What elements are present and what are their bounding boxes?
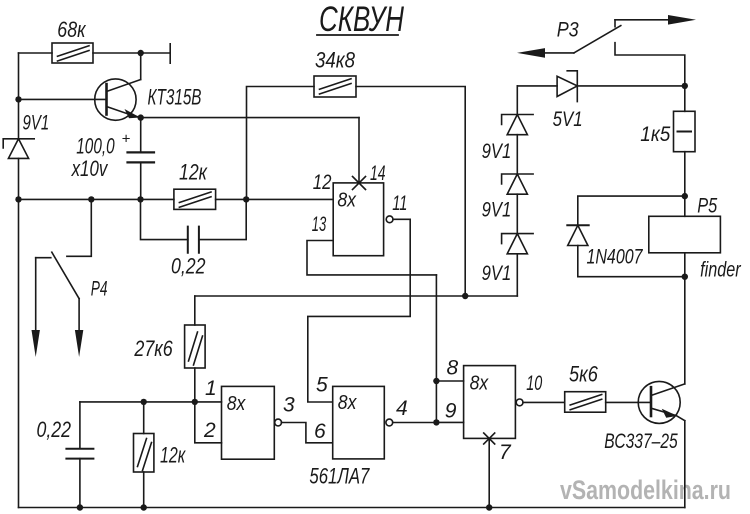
wire 1к5 to relay: [684, 152, 686, 217]
capacitor C2 0,22 top: [141, 199, 247, 252]
svg-text:P4: P4: [91, 278, 108, 301]
wire pin 9: [436, 421, 463, 423]
node P4 junction: [88, 196, 94, 202]
node cap bottom: [77, 504, 83, 510]
wire emitter rail down: [684, 421, 686, 508]
wire collector rail up: [684, 277, 686, 384]
bubble pin 4: [386, 419, 393, 426]
node 1N4007 bottom junction: [682, 274, 688, 280]
switch P3: [517, 15, 696, 111]
svg-text:1: 1: [205, 377, 217, 400]
node pin 8: [433, 378, 439, 384]
svg-text:10: 10: [526, 372, 542, 395]
node left mid junction: [15, 196, 21, 202]
node 12k bottom: [141, 504, 147, 510]
svg-text:9V1: 9V1: [482, 199, 512, 222]
svg-text:КТ315В: КТ315В: [148, 85, 202, 110]
wire pin 8: [436, 380, 463, 382]
diode VD6 1N4007: [567, 225, 685, 276]
transistor Q2 ВС337-25: [638, 381, 685, 423]
svg-text:8х: 8х: [470, 373, 489, 395]
gate U1a box: [222, 386, 275, 459]
svg-text:27к6: 27к6: [134, 336, 174, 361]
svg-text:13: 13: [312, 213, 327, 236]
gate U1d box: [333, 183, 383, 256]
svg-text:5к6: 5к6: [569, 362, 598, 387]
wire pin 13 loop: [307, 241, 436, 275]
node pin 9: [433, 419, 439, 425]
svg-text:1к5: 1к5: [640, 123, 670, 146]
svg-text:9V1: 9V1: [482, 140, 512, 163]
node 1N4007 top junction: [682, 193, 688, 199]
resistor R4 27к6: [185, 296, 206, 402]
wire pin 14 vertical: [358, 118, 360, 183]
zener VD1 9V1 left: [3, 139, 34, 159]
node pin12 junction: [243, 196, 249, 202]
capacitor C3 0,22 bottom: [66, 402, 93, 508]
svg-text:9V1: 9V1: [23, 112, 50, 135]
wire top rail right of 68к: [93, 52, 170, 54]
wire left rail upper: [18, 53, 20, 139]
gate U1c box: [464, 366, 516, 439]
svg-text:x10v: x10v: [71, 156, 109, 181]
switch P4: [32, 199, 92, 357]
svg-text:100,0: 100,0: [76, 134, 115, 159]
svg-text:11: 11: [392, 192, 407, 215]
node 12k bottom top junction: [141, 399, 147, 405]
zener VD5 9V1: [502, 234, 533, 296]
wire long horizontal 296: [195, 295, 518, 297]
wire 1N4007 top branch: [578, 196, 685, 225]
svg-text:3: 3: [283, 393, 295, 416]
resistor R5 12к bottom: [134, 402, 154, 508]
wire pin8-9 vertical: [435, 275, 437, 423]
diode VD2 5V1: [517, 71, 685, 102]
wire pin 2 jog: [195, 402, 222, 443]
wire zener chain top: [516, 86, 518, 115]
pin 7 cross: [484, 433, 495, 444]
pin 14 cross: [353, 177, 366, 190]
svg-text:14: 14: [370, 162, 386, 185]
svg-text:9V1: 9V1: [482, 262, 512, 285]
wire pin 10 to 5к6: [523, 401, 565, 403]
wire mid horizontal left: [19, 198, 174, 200]
zener VD4 9V1: [502, 174, 533, 234]
resistor 68к: [52, 43, 93, 63]
svg-text:561ЛА7: 561ЛА7: [309, 464, 370, 489]
node 34k8 bottom junction: [462, 293, 468, 299]
resistor R2 12к top: [174, 189, 216, 209]
wire pin 7 down: [488, 438, 490, 507]
svg-text:2: 2: [203, 419, 216, 442]
transistor Q1 КТ315В: [95, 79, 141, 120]
svg-text:+: +: [122, 131, 131, 148]
svg-text:12к: 12к: [179, 160, 208, 185]
wire bottom horizontal 402: [80, 401, 222, 403]
node pin7 bottom: [486, 504, 492, 510]
wire emitter to pin14: [141, 117, 359, 119]
wire 34к8 right branch: [356, 87, 465, 297]
node collector top junction: [138, 50, 144, 56]
zener VD3 9V1: [502, 115, 533, 175]
wire pin 3 to pin 6: [281, 423, 332, 443]
svg-text:7: 7: [499, 441, 512, 464]
wire bottom rail: [19, 507, 685, 509]
svg-text:1N4007: 1N4007: [587, 246, 644, 269]
wire pin 4 to pin 9: [393, 422, 437, 424]
gate U1b box: [333, 386, 385, 459]
svg-text:vSamodelkina.ru: vSamodelkina.ru: [560, 475, 731, 505]
resistor R6 5к6: [565, 392, 606, 413]
node 5V1 right junction: [682, 83, 688, 89]
node base junction: [15, 96, 21, 102]
wire top rail left: [19, 52, 53, 54]
svg-text:68к: 68к: [57, 17, 87, 42]
capacitor C1 100.0 x10v: [128, 118, 155, 200]
relay P5 coil: [649, 216, 721, 253]
node 12k left junction: [137, 196, 143, 202]
svg-text:0,22: 0,22: [171, 254, 206, 279]
wire collector vertical: [140, 53, 142, 80]
bubble pin 3: [275, 419, 282, 426]
svg-text:9: 9: [445, 400, 457, 423]
node pins 1-2 junction: [192, 399, 198, 405]
svg-text:P3: P3: [557, 18, 579, 41]
svg-text:СКВУН: СКВУН: [319, 0, 405, 39]
wire base: [19, 98, 107, 100]
resistor R7 1к5: [674, 111, 696, 151]
terminal bar top: [169, 44, 171, 63]
wire mid horizontal right: [216, 198, 334, 200]
svg-text:34к8: 34к8: [315, 48, 356, 73]
svg-text:8: 8: [447, 357, 459, 380]
svg-text:5: 5: [316, 374, 328, 397]
svg-text:6: 6: [314, 420, 326, 443]
svg-text:P5: P5: [697, 194, 717, 217]
bubble pin 11: [386, 216, 393, 223]
svg-text:4: 4: [396, 397, 408, 420]
svg-text:5V1: 5V1: [553, 108, 583, 131]
svg-text:ВС337–25: ВС337–25: [604, 430, 678, 453]
bubble pin 10: [516, 399, 523, 406]
title СКВУН: [317, 0, 405, 39]
wire pin 11 to pin 5: [308, 219, 410, 402]
svg-text:12: 12: [313, 171, 332, 194]
svg-text:12к: 12к: [160, 443, 186, 468]
svg-text:8х: 8х: [338, 392, 357, 414]
wire 34к8 left branch: [247, 87, 315, 200]
resistor R3 34к8: [314, 76, 356, 97]
wire left rail lower: [18, 158, 20, 507]
wire relay bottom: [684, 253, 686, 277]
svg-text:0,22: 0,22: [37, 417, 72, 442]
node emitter junction: [138, 114, 144, 120]
svg-text:8х: 8х: [227, 393, 246, 415]
wire 5к6 to base: [606, 401, 651, 403]
svg-text:finder: finder: [700, 259, 741, 282]
svg-text:8х: 8х: [337, 190, 356, 212]
